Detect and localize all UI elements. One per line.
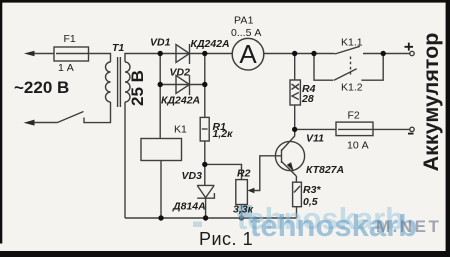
svg-text:0...5 А: 0...5 А bbox=[231, 27, 261, 39]
svg-text:K1: K1 bbox=[174, 123, 187, 135]
svg-text:PA1: PA1 bbox=[234, 15, 254, 27]
svg-text:F1: F1 bbox=[64, 33, 76, 45]
svg-text:T1: T1 bbox=[112, 42, 124, 54]
svg-text:Аккумулятор: Аккумулятор bbox=[419, 33, 443, 172]
svg-text:R3*: R3* bbox=[303, 184, 321, 196]
svg-text:VD1: VD1 bbox=[150, 37, 171, 49]
svg-text:КТ827А: КТ827А bbox=[306, 164, 344, 176]
svg-text:25 В: 25 В bbox=[128, 70, 147, 106]
svg-text:K1.2: K1.2 bbox=[341, 82, 363, 94]
svg-text:F2: F2 bbox=[348, 109, 360, 121]
svg-text:Рис. 1: Рис. 1 bbox=[199, 229, 253, 249]
svg-text:VD3: VD3 bbox=[182, 170, 203, 182]
svg-text:КД242А: КД242А bbox=[161, 95, 200, 107]
svg-text:A: A bbox=[239, 39, 257, 69]
svg-text:28: 28 bbox=[301, 93, 314, 105]
svg-text:КД242А: КД242А bbox=[191, 38, 230, 50]
svg-text:~220 В: ~220 В bbox=[14, 78, 69, 97]
svg-text:0,5: 0,5 bbox=[303, 196, 318, 208]
svg-text:1 А: 1 А bbox=[58, 62, 74, 74]
svg-text:1,2к: 1,2к bbox=[213, 128, 234, 140]
svg-text:10 А: 10 А bbox=[347, 140, 369, 152]
svg-text:Д814А: Д814А bbox=[172, 201, 206, 213]
svg-text:VD2: VD2 bbox=[170, 67, 191, 79]
svg-text:M.NET: M.NET bbox=[376, 217, 441, 236]
svg-text:V11: V11 bbox=[306, 133, 324, 145]
svg-text:R2: R2 bbox=[237, 168, 251, 180]
svg-text:K1.1: K1.1 bbox=[341, 36, 363, 48]
svg-text:3,3к: 3,3к bbox=[233, 203, 254, 215]
